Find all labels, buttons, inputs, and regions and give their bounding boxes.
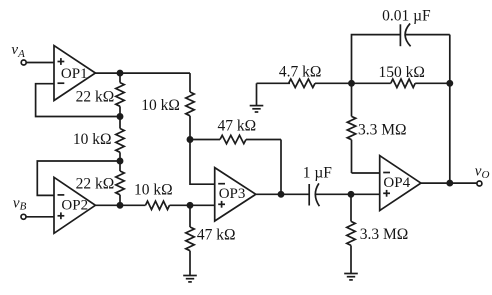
svg-text:3.3 MΩ: 3.3 MΩ xyxy=(360,226,409,243)
node B ladder junction 1 xyxy=(117,114,122,119)
wire C2 to node H xyxy=(316,193,380,195)
wire vA to OP1 + input xyxy=(26,62,54,64)
resistor R11 3.3 MOhm (to ground) xyxy=(347,194,408,273)
resistor R2 10 kOhm (ladder middle) xyxy=(73,117,124,162)
resistor R4 10 kOhm (OP2 output series) xyxy=(134,181,173,209)
svg-text:22 kΩ: 22 kΩ xyxy=(76,176,115,193)
node I feedback network junction xyxy=(349,81,354,86)
svg-text:10 kΩ: 10 kΩ xyxy=(141,97,180,114)
wire OP2 feedback: node C to OP2 - input xyxy=(37,161,120,195)
resistor R5 47 kOhm (to ground) xyxy=(186,205,236,275)
svg-text:OP2: OP2 xyxy=(61,197,88,213)
svg-text:150 kΩ: 150 kΩ xyxy=(379,64,425,81)
input terminal vB xyxy=(13,196,27,220)
wire vB to OP2 + input xyxy=(26,216,54,218)
output terminal vO xyxy=(475,163,490,186)
input terminal vA xyxy=(11,42,26,65)
wire node F to OP3 - input xyxy=(190,140,215,185)
resistor R6 10 kOhm (vertical from OP1 output) xyxy=(141,73,194,139)
node C ladder junction 2 xyxy=(117,158,122,163)
wire R7 down to OP3 output xyxy=(280,140,282,195)
svg-text:10 kΩ: 10 kΩ xyxy=(134,181,173,198)
resistor R9 150 kOhm xyxy=(352,64,450,88)
op-amp OP3 xyxy=(215,168,256,221)
ground under R5 xyxy=(183,276,197,282)
node D OP2 output junction xyxy=(117,203,122,208)
wire OP4 output to vO xyxy=(421,182,477,184)
capacitor C1 0.01 uF xyxy=(382,8,431,47)
svg-text:47 kΩ: 47 kΩ xyxy=(197,227,236,244)
node J 150k / C1 right junction xyxy=(447,81,452,86)
svg-text:OP4: OP4 xyxy=(383,175,410,191)
resistor R3 22 kOhm (ladder bottom) xyxy=(76,161,125,205)
svg-text:10 kΩ: 10 kΩ xyxy=(73,131,112,148)
capacitor C2 1 uF xyxy=(303,164,333,206)
node H OP4 + input junction xyxy=(348,192,353,197)
svg-text:OP3: OP3 xyxy=(219,186,246,202)
ground under R11 xyxy=(344,274,358,280)
node OP1 output junction xyxy=(117,71,122,76)
resistor R10 3.3 MOhm (OP4 - to node I) xyxy=(347,83,406,173)
wire R10 to OP4 - input xyxy=(352,172,380,174)
svg-text:47 kΩ: 47 kΩ xyxy=(218,117,257,134)
node G OP3 output junction xyxy=(278,192,283,197)
op-amp OP4 xyxy=(380,156,421,211)
resistor R8 4.7 kOhm xyxy=(257,63,352,87)
svg-text:22 kΩ: 22 kΩ xyxy=(76,88,115,105)
wire OP2 output to OP3 + input xyxy=(95,204,214,206)
capacitor C1 0.01 uF branch wires xyxy=(352,35,450,84)
wire OP3 output xyxy=(256,193,309,195)
node F OP3 - network junction xyxy=(187,137,192,142)
wire OP1 output to resistor chain and 10 k vertical branch xyxy=(95,72,190,74)
op-amp OP2 xyxy=(54,177,95,233)
ground for R8 4.7 kOhm xyxy=(250,83,264,112)
wire node J down to OP4 output xyxy=(449,83,451,183)
resistor R7 47 kOhm (OP3 feedback) xyxy=(190,117,281,143)
wire OP1 feedback: node B to OP1 - input xyxy=(36,84,120,117)
svg-text:0.01 µF: 0.01 µF xyxy=(382,8,431,25)
resistor R1 22 kOhm (OP1 feedback ladder top) xyxy=(76,73,125,116)
node K OP4 output junction xyxy=(447,181,452,186)
node E OP3 + input junction xyxy=(187,203,192,208)
svg-text:3.3 MΩ: 3.3 MΩ xyxy=(358,121,407,138)
svg-text:1 µF: 1 µF xyxy=(303,164,333,181)
op-amp OP1 xyxy=(54,46,95,101)
svg-text:4.7 kΩ: 4.7 kΩ xyxy=(279,63,322,80)
svg-text:OP1: OP1 xyxy=(61,66,88,82)
